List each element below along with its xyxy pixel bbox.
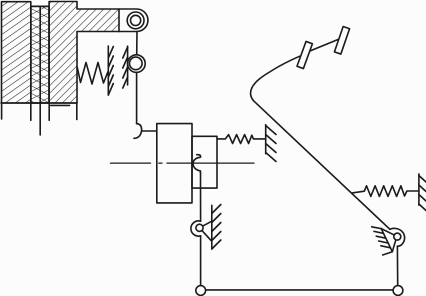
pivot P2 bracket <box>381 229 397 252</box>
link rod to pivot yoke <box>200 173 202 222</box>
link rod to bottom pin <box>200 236 202 286</box>
rod stub right edge <box>76 103 78 120</box>
hook H2 on spool <box>193 155 201 173</box>
pivot P1 yoke <box>191 221 201 236</box>
link rod to bottom right pin <box>396 246 398 286</box>
pedal curve and lever <box>250 56 389 229</box>
bottom pin right <box>393 286 403 296</box>
bottom pin left <box>196 286 206 296</box>
roller outer ring <box>128 55 146 73</box>
wall A <box>108 46 113 95</box>
wall C <box>266 125 276 162</box>
friction block right plate with arm <box>49 2 148 104</box>
friction block left plate <box>2 2 31 103</box>
lever head at pivot P2 <box>390 228 405 246</box>
lip line under right plate <box>51 104 70 106</box>
arm pin circle outer <box>127 12 144 29</box>
roller inner circle <box>130 57 143 70</box>
pedal shaft <box>305 40 338 54</box>
centerline <box>111 162 255 164</box>
pivot P1 bracket <box>200 221 212 241</box>
rod stub column right <box>48 103 50 120</box>
wall F <box>419 174 426 211</box>
pivot P1 pin <box>196 224 203 231</box>
hook H1 <box>134 124 142 139</box>
wall D <box>212 205 221 250</box>
pedal pad right <box>334 27 349 55</box>
bottom edge of block assembly <box>1 102 77 104</box>
bottom coupler bar <box>206 289 394 291</box>
rod stub left edge <box>1 103 3 119</box>
link from arm pin <box>136 32 138 55</box>
valve inner block <box>192 136 217 188</box>
pivot P2 pin <box>394 233 401 240</box>
spring S1 <box>77 63 108 85</box>
center rod <box>39 6 41 135</box>
rod stub column left <box>30 103 32 120</box>
wall E <box>372 227 393 255</box>
valve main body <box>157 124 192 203</box>
link rod down to hook <box>136 72 138 123</box>
pedal pad left <box>297 41 312 68</box>
arm cap divider <box>118 9 120 32</box>
arm pin circle inner <box>131 15 141 25</box>
friction pack middle cross-hatched column <box>31 6 49 103</box>
spring S3 <box>352 186 419 197</box>
spring S2 <box>217 135 266 144</box>
wall B <box>123 46 128 88</box>
pin link to valve body <box>142 130 157 132</box>
